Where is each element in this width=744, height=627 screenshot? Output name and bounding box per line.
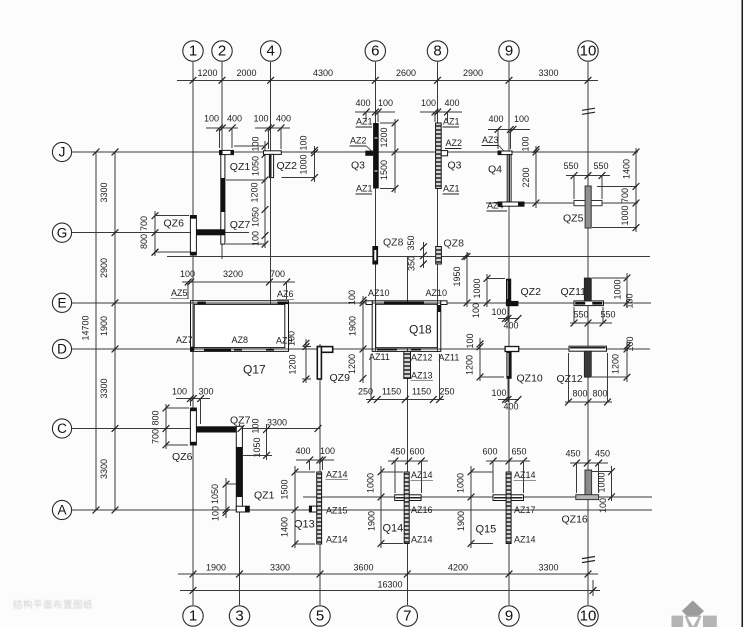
column QZ1 foot at A	[236, 506, 249, 512]
svg-text:AZ10: AZ10	[426, 288, 448, 298]
svg-text:QZ8: QZ8	[383, 237, 404, 249]
wall Q17 black segments	[197, 302, 205, 304]
svg-text:9: 9	[505, 608, 513, 625]
svg-text:400: 400	[503, 321, 518, 331]
reference line y497	[303, 496, 652, 498]
dim 800/800 below QZ12	[565, 401, 612, 403]
logo M bottom right	[682, 601, 704, 622]
svg-text:1000: 1000	[456, 473, 466, 493]
axis line 7	[406, 257, 408, 606]
left overall dimension 14700	[95, 152, 97, 510]
svg-text:1200: 1200	[288, 354, 298, 374]
svg-text:QZ1: QZ1	[254, 490, 275, 502]
svg-text:8: 8	[433, 43, 441, 60]
axis bubble 5 bottom	[310, 606, 330, 626]
svg-text:G: G	[57, 225, 68, 240]
svg-text:1400: 1400	[280, 517, 290, 537]
dim 100/1200 left of QZ9	[305, 339, 307, 383]
svg-text:14700: 14700	[81, 315, 91, 340]
svg-text:100: 100	[287, 331, 297, 346]
svg-text:10: 10	[580, 608, 597, 625]
svg-text:1000: 1000	[620, 205, 630, 225]
svg-text:Q15: Q15	[476, 524, 497, 536]
axis bubble A left	[52, 500, 71, 519]
axis bubble E left	[52, 293, 71, 312]
svg-text:AZ7: AZ7	[176, 335, 193, 345]
svg-text:350: 350	[407, 256, 417, 271]
svg-text:3300: 3300	[538, 68, 558, 78]
svg-text:100: 100	[421, 98, 436, 108]
svg-text:600: 600	[482, 447, 497, 457]
svg-text:2000: 2000	[236, 68, 256, 78]
svg-text:100: 100	[471, 303, 481, 318]
svg-text:QZ12: QZ12	[557, 373, 583, 385]
svg-text:Q17: Q17	[243, 363, 266, 377]
axis line 10	[587, 62, 589, 605]
column QZ12 (axis 10 at D)	[569, 346, 607, 351]
svg-text:2900: 2900	[99, 258, 109, 278]
column QZ2 top (axis 4)	[264, 151, 282, 155]
svg-text:Q18: Q18	[409, 323, 432, 337]
svg-text:650: 650	[511, 447, 526, 457]
svg-text:QZ11: QZ11	[561, 286, 587, 298]
axis line 5	[319, 344, 321, 605]
svg-text:2600: 2600	[396, 68, 416, 78]
axis bubble 9 top	[499, 41, 519, 61]
svg-text:7: 7	[403, 608, 411, 625]
column QZ11 (axis 10 at E)	[574, 301, 604, 306]
break marks on axis 10 top	[582, 108, 595, 110]
column Q14 cross (axis 7)	[395, 495, 421, 501]
svg-text:800: 800	[139, 234, 149, 249]
svg-text:400: 400	[295, 446, 310, 456]
svg-text:100: 100	[378, 98, 393, 108]
axis bubble 4 top	[261, 41, 281, 61]
dim 1050 below C	[266, 424, 268, 460]
column QZ8 (axis 8)	[436, 247, 442, 265]
svg-text:AZ10: AZ10	[368, 288, 390, 298]
svg-text:QZ10: QZ10	[517, 373, 543, 385]
svg-text:100: 100	[180, 269, 195, 279]
column QZ8 (axis 6)	[372, 246, 378, 265]
svg-text:3300: 3300	[99, 378, 109, 398]
svg-text:QZ2: QZ2	[277, 160, 298, 172]
svg-text:AZ2: AZ2	[446, 138, 463, 148]
axis bubble 3 bottom	[229, 606, 249, 626]
svg-text:AZ14: AZ14	[514, 535, 536, 545]
reference line y256	[167, 256, 650, 258]
svg-text:AZ14: AZ14	[411, 535, 433, 545]
svg-text:QZ16: QZ16	[562, 514, 588, 526]
svg-text:100: 100	[521, 136, 531, 151]
svg-text:AZ1: AZ1	[356, 184, 373, 194]
svg-text:1: 1	[189, 608, 197, 625]
dim 1500/1400 left of Q13	[294, 466, 296, 548]
svg-text:1000: 1000	[613, 279, 623, 299]
svg-text:100: 100	[211, 506, 221, 521]
svg-text:1900: 1900	[367, 511, 377, 531]
svg-text:QZ2: QZ2	[521, 286, 542, 298]
svg-text:100: 100	[514, 114, 529, 124]
svg-text:600: 600	[409, 447, 424, 457]
column AZ13 stub	[404, 351, 411, 378]
break marks on axis 10 bottom	[582, 557, 595, 559]
svg-text:100: 100	[251, 418, 261, 433]
svg-text:Q3: Q3	[448, 160, 462, 172]
svg-text:QZ8: QZ8	[444, 238, 465, 250]
svg-text:Q3: Q3	[351, 160, 365, 172]
axis line E	[72, 302, 651, 304]
svg-text:1000: 1000	[299, 154, 309, 174]
svg-text:QZ9: QZ9	[330, 372, 351, 384]
column QZ7 bar at G	[196, 229, 225, 235]
svg-text:3300: 3300	[538, 563, 558, 573]
svg-text:100: 100	[204, 114, 219, 124]
svg-text:100: 100	[465, 333, 475, 348]
dim 550/550 above QZ5	[566, 175, 610, 177]
dim 100/2200 right of Q4	[535, 146, 537, 208]
svg-text:700: 700	[620, 188, 630, 203]
svg-text:5: 5	[316, 608, 324, 625]
axis bubble 6 top	[365, 41, 385, 61]
svg-text:100: 100	[320, 446, 335, 456]
svg-text:1000: 1000	[597, 472, 607, 492]
svg-text:QZ7: QZ7	[230, 219, 251, 231]
top dimension line	[177, 79, 598, 81]
axis bubble J left	[52, 142, 71, 161]
svg-text:1150: 1150	[382, 387, 401, 397]
svg-text:1050: 1050	[251, 207, 261, 227]
svg-text:AZ3: AZ3	[482, 135, 499, 145]
dim 1200/1500 right of Q3 left	[394, 119, 396, 193]
column Q15 cross (axis 9)	[493, 495, 524, 501]
svg-text:QZ7: QZ7	[230, 415, 251, 427]
svg-text:AZ1: AZ1	[443, 184, 460, 194]
svg-text:550: 550	[593, 161, 608, 171]
svg-text:AZ11: AZ11	[369, 352, 390, 362]
dim 100/400 above Q3 right	[420, 111, 462, 113]
dim chain 100/1050/1200/1050/100 right of QZ1	[264, 141, 266, 248]
svg-text:100: 100	[347, 290, 357, 305]
svg-text:AZ6: AZ6	[277, 289, 294, 299]
dim 100/400 above QZ2	[255, 127, 290, 129]
column QZ1 wall (axis 2)	[221, 155, 225, 245]
svg-text:3600: 3600	[353, 563, 373, 573]
axis line A	[72, 509, 652, 511]
svg-text:9: 9	[505, 43, 513, 60]
svg-text:6: 6	[371, 43, 379, 60]
svg-text:16300: 16300	[377, 580, 402, 590]
svg-text:Q13: Q13	[294, 519, 315, 531]
svg-text:1200: 1200	[611, 354, 621, 374]
axis bubble 7 bottom	[397, 606, 417, 626]
dim chain 1400/700/1000 right of J row	[635, 148, 637, 232]
svg-text:4200: 4200	[448, 563, 468, 573]
dim 350/350 between QZ8	[423, 242, 425, 268]
svg-text:1400: 1400	[622, 159, 632, 179]
svg-text:400: 400	[227, 114, 242, 124]
svg-text:1900: 1900	[348, 316, 358, 336]
svg-text:AZ14: AZ14	[326, 535, 348, 545]
svg-text:100: 100	[251, 136, 261, 151]
svg-text:450: 450	[565, 449, 580, 459]
dim 450/450 above QZ16	[570, 462, 608, 464]
reference line y203	[486, 202, 638, 204]
svg-text:550: 550	[573, 310, 588, 320]
axis bubble 10 top	[578, 41, 598, 61]
axis line 8	[437, 62, 439, 352]
svg-text:QZ6: QZ6	[172, 451, 193, 463]
svg-text:C: C	[57, 421, 67, 436]
axis bubble 9 bottom	[499, 606, 519, 626]
svg-text:450: 450	[390, 447, 405, 457]
svg-text:A: A	[57, 503, 66, 518]
dim 100/400 below QZ2 foot	[498, 318, 519, 320]
svg-text:250: 250	[439, 387, 454, 397]
column QZ7 bar at C	[196, 426, 239, 432]
svg-text:4: 4	[267, 43, 275, 60]
svg-text:1200: 1200	[197, 68, 217, 78]
svg-text:1200: 1200	[379, 127, 389, 147]
svg-text:Q14: Q14	[383, 523, 404, 535]
svg-text:3300: 3300	[270, 563, 290, 573]
column QZ2 (axis 9 at E)	[506, 279, 511, 302]
axis line 1	[192, 62, 194, 605]
column Q3 left wall (axis 6)	[373, 123, 379, 189]
axis bubble C left	[52, 419, 71, 438]
svg-text:3200: 3200	[223, 269, 243, 279]
dim chain 100/1900/1200 left of Q18	[362, 296, 364, 383]
dim 100/400 below QZ10 foot	[498, 399, 519, 401]
axis line 3	[239, 424, 241, 605]
svg-text:结构平面布置图纸: 结构平面布置图纸	[13, 599, 93, 611]
svg-text:AZ1: AZ1	[356, 117, 373, 127]
dim 100/1000 right of QZ2	[314, 146, 316, 182]
svg-text:D: D	[57, 342, 67, 357]
dim chain 800/700 at C	[165, 404, 167, 449]
svg-text:1150: 1150	[412, 387, 431, 397]
dim 400/100 above Q3 left	[355, 111, 395, 113]
svg-text:100: 100	[625, 293, 635, 308]
svg-text:AZ1: AZ1	[443, 117, 460, 127]
svg-text:1500: 1500	[379, 160, 389, 180]
axis line G	[72, 232, 249, 234]
svg-text:100: 100	[625, 336, 635, 351]
dim 1050/100 above A	[225, 478, 227, 518]
svg-text:100: 100	[172, 387, 187, 397]
svg-text:QZ6: QZ6	[164, 218, 185, 230]
axis bubble D left	[52, 339, 71, 358]
svg-text:100: 100	[491, 307, 506, 317]
svg-text:AZ5: AZ5	[171, 288, 188, 298]
column QZ6 at C (axis 1)	[190, 408, 196, 445]
svg-text:3300: 3300	[267, 418, 287, 428]
wall QZ1 (axis 3 from C to A)	[236, 426, 242, 511]
column Q3 right wall (axis 8)	[436, 123, 442, 189]
wall Q18 flanges and black segments	[366, 301, 372, 305]
svg-text:1200: 1200	[250, 182, 260, 202]
svg-text:Q4: Q4	[488, 164, 502, 176]
svg-text:AZ17: AZ17	[514, 505, 536, 515]
axis line C	[72, 428, 320, 430]
svg-text:100: 100	[598, 498, 608, 513]
svg-text:3300: 3300	[99, 459, 109, 479]
bottom overall dimension 16300	[180, 590, 600, 592]
axis line 4	[270, 62, 272, 350]
axis bubble 8 top	[427, 41, 447, 61]
axis bubble 1 bottom	[183, 606, 203, 626]
svg-text:400: 400	[488, 114, 503, 124]
svg-text:QZ1: QZ1	[230, 161, 251, 173]
svg-text:1900: 1900	[206, 563, 226, 573]
svg-text:1050: 1050	[251, 156, 261, 176]
svg-text:400: 400	[503, 402, 518, 412]
dim 100/1200 left of QZ10	[479, 338, 481, 381]
svg-text:100: 100	[253, 114, 268, 124]
svg-text:1950: 1950	[452, 266, 462, 286]
svg-text:550: 550	[563, 161, 578, 171]
svg-text:800: 800	[572, 389, 587, 399]
svg-text:AZ14: AZ14	[326, 470, 348, 480]
column QZ10 (axis 9 at D)	[505, 347, 519, 352]
svg-text:700: 700	[151, 429, 161, 444]
svg-text:10: 10	[580, 43, 597, 60]
svg-text:1000: 1000	[472, 278, 482, 298]
svg-text:450: 450	[595, 449, 610, 459]
svg-text:AZ15: AZ15	[326, 506, 348, 516]
svg-text:AZ11: AZ11	[439, 353, 460, 363]
bottom segment dimension line	[178, 573, 598, 575]
dim 400/100 above Q13	[296, 459, 334, 461]
svg-text:300: 300	[198, 387, 213, 397]
svg-text:800: 800	[151, 410, 161, 425]
svg-text:AZ13: AZ13	[411, 371, 433, 381]
svg-text:1200: 1200	[347, 354, 357, 374]
column QZ5 cross (axis 10)	[574, 201, 602, 206]
svg-text:350: 350	[406, 235, 416, 250]
axis bubble 2 top	[212, 41, 232, 61]
wall Q18 outline	[372, 301, 441, 352]
axis line 9	[508, 62, 510, 605]
axis bubble G left	[52, 223, 71, 242]
column QZ1 top cap	[220, 150, 234, 154]
svg-text:4300: 4300	[313, 68, 333, 78]
dim 1000/1900 left of Q14	[380, 466, 382, 548]
dim 1950 left of axis 9	[466, 252, 468, 307]
left segment dimension line	[114, 152, 116, 510]
svg-text:3: 3	[235, 608, 243, 625]
dim 1000/100 right of QZ16	[611, 466, 613, 501]
svg-text:1200: 1200	[465, 355, 475, 375]
svg-text:400: 400	[355, 98, 370, 108]
wall Q17 outline	[191, 301, 289, 352]
dim 100/400 above QZ1	[206, 127, 238, 129]
svg-text:100: 100	[299, 135, 309, 150]
svg-text:800: 800	[592, 389, 607, 399]
svg-text:3300: 3300	[99, 182, 109, 202]
svg-text:1900: 1900	[456, 511, 466, 531]
dim 100/300 above QZ6 at C	[176, 398, 210, 400]
axis line J	[72, 151, 638, 153]
column Q4 (axis 9)	[498, 151, 512, 155]
svg-text:AZ8: AZ8	[232, 335, 249, 345]
svg-text:700: 700	[270, 269, 285, 279]
axis line 2	[221, 62, 223, 259]
svg-text:700: 700	[139, 216, 149, 231]
svg-text:2: 2	[218, 43, 226, 60]
axis line 6	[374, 62, 376, 351]
dim 600/650 above Q15	[486, 460, 530, 462]
column Q13 (axis 5)	[317, 472, 322, 544]
svg-text:QZ5: QZ5	[563, 213, 584, 225]
svg-text:AZ12: AZ12	[411, 353, 433, 363]
dim 100/1200 right of QZ12	[626, 341, 628, 382]
svg-text:400: 400	[276, 114, 291, 124]
svg-text:100: 100	[491, 388, 506, 398]
svg-text:AZ2: AZ2	[350, 136, 367, 146]
dim 450/600 above Q14	[388, 460, 428, 462]
dim 400/100 above Q4	[488, 128, 530, 130]
dim 100/3200/700 above Q17	[182, 281, 295, 283]
svg-text:1900: 1900	[99, 316, 109, 336]
right page border	[741, 0, 743, 627]
svg-text:AZ14: AZ14	[514, 470, 536, 480]
dim 1000/100 right of QZ11	[626, 273, 628, 308]
svg-text:J: J	[59, 145, 66, 160]
svg-text:AZ16: AZ16	[411, 505, 433, 515]
svg-text:400: 400	[444, 98, 459, 108]
svg-text:1: 1	[189, 43, 197, 60]
svg-text:1050: 1050	[210, 484, 220, 504]
dim chain 700/800 at G	[154, 211, 156, 256]
axis bubble 10 bottom	[578, 606, 598, 626]
dim 1000/1900 left of Q15	[470, 466, 472, 548]
column QZ16 (axis 10)	[585, 470, 592, 495]
column QZ9 (axis 5 at D)	[317, 347, 332, 353]
svg-text:2900: 2900	[463, 68, 483, 78]
column QZ6 at G	[190, 216, 196, 256]
svg-text:AZ4: AZ4	[487, 201, 504, 211]
extension lines right of QZ5	[597, 185, 637, 187]
axis line D	[72, 348, 650, 350]
svg-text:1500: 1500	[280, 479, 290, 499]
dim 250/1150/1150/250 below Q18	[366, 399, 444, 401]
svg-text:E: E	[57, 295, 66, 310]
svg-text:1000: 1000	[366, 473, 376, 493]
svg-text:2200: 2200	[521, 167, 531, 187]
dim 550/550 below QZ11	[570, 322, 612, 324]
dim 1000/100 left of QZ2	[486, 274, 488, 307]
axis bubble 1 top	[183, 41, 203, 61]
svg-text:1050: 1050	[252, 437, 262, 457]
